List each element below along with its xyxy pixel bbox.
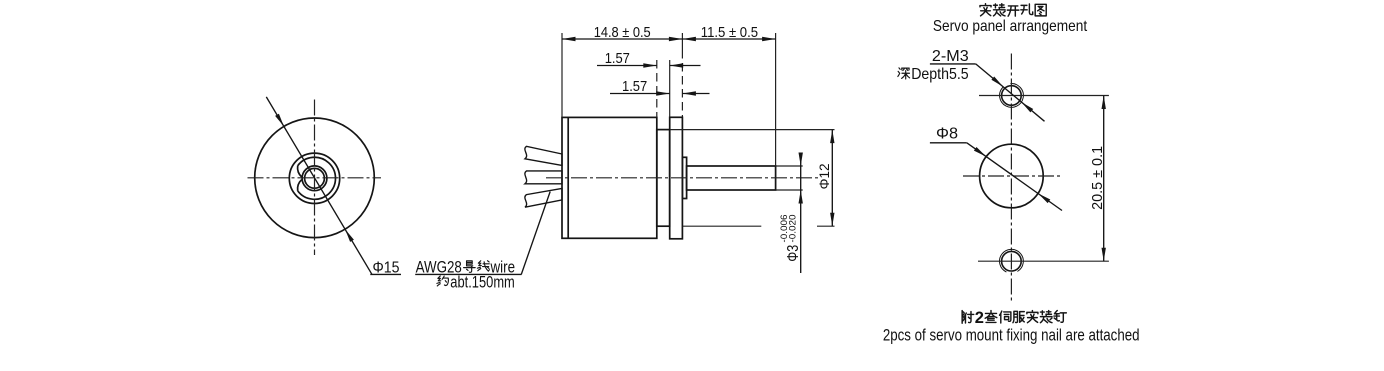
svg-text:2pcs of servo mount fixing nai: 2pcs of servo mount fixing nail are atta…	[883, 325, 1140, 344]
svg-text:Servo panel arrangement: Servo panel arrangement	[933, 18, 1088, 35]
svg-text:Depth5.5: Depth5.5	[911, 66, 969, 83]
svg-text:abt.150mm: abt.150mm	[450, 273, 515, 292]
svg-text:Φ8: Φ8	[936, 126, 958, 143]
svg-text:-0.020: -0.020	[787, 215, 797, 243]
svg-text:1.57: 1.57	[605, 51, 630, 67]
svg-text:11.5 ± 0.5: 11.5 ± 0.5	[701, 25, 758, 41]
svg-text:2-M3: 2-M3	[932, 48, 969, 65]
svg-text:1.57: 1.57	[622, 79, 647, 95]
svg-text:Φ12: Φ12	[816, 163, 832, 189]
svg-text:Φ3: Φ3	[785, 245, 802, 262]
svg-text:14.8 ± 0.5: 14.8 ± 0.5	[594, 25, 651, 41]
svg-text:20.5 ± 0.1: 20.5 ± 0.1	[1089, 146, 1106, 210]
svg-text:2: 2	[975, 309, 984, 327]
